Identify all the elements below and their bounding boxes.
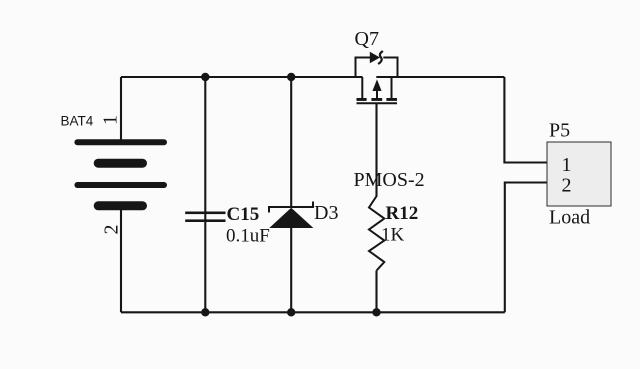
- svg-text:R12: R12: [386, 203, 419, 224]
- Q7 gate bar: [357, 102, 398, 104]
- svg-text:Q7: Q7: [355, 28, 379, 50]
- svg-text:Load: Load: [549, 207, 590, 229]
- resistor R12: [369, 196, 384, 271]
- svg-text:1: 1: [100, 115, 122, 125]
- Q7 bulk arrow: [372, 79, 381, 91]
- svg-text:0.1uF: 0.1uF: [226, 226, 270, 247]
- junction dot: top rail / C15: [201, 73, 209, 81]
- wire: P5 pin 2 return: [505, 183, 547, 313]
- wire: Q7 gate lead to R12: [375, 104, 377, 197]
- svg-text:P5: P5: [549, 120, 570, 142]
- svg-text:D3: D3: [314, 202, 338, 224]
- wire: battery pin 2 drop: [120, 206, 122, 312]
- connector P5 box: [547, 142, 611, 206]
- svg-text:2: 2: [562, 175, 572, 197]
- svg-text:1: 1: [562, 154, 572, 176]
- wire: diode D3 bottom lead: [290, 228, 292, 312]
- svg-text:1K: 1K: [381, 225, 405, 246]
- wire: capacitor C15 vertical: [204, 77, 206, 312]
- wire: P5 pin 1 feed: [504, 77, 547, 163]
- Q7 body diode cathode wire: [383, 58, 397, 78]
- Q7 body diode triangle: [370, 52, 380, 64]
- Q7 bulk stem: [376, 90, 378, 99]
- battery BAT4: [74, 139, 167, 210]
- svg-text:PMOS-2: PMOS-2: [354, 169, 425, 191]
- Q7 body diode curved cathode: [378, 51, 383, 64]
- Q7 drain contact bar: [386, 98, 397, 101]
- Q7 source contact bar: [357, 98, 367, 101]
- junction dot: bottom rail / D3: [287, 308, 295, 316]
- zener diode D3: [269, 202, 313, 229]
- wire: bottom rail: [121, 311, 505, 313]
- wire: diode D3 top lead: [290, 77, 292, 207]
- junction dot: bottom rail / R12: [372, 308, 380, 316]
- wire: top rail right (Q7 to P5 corner): [376, 76, 504, 78]
- Q7 drain vertical: [391, 77, 393, 99]
- junction dot: top rail / D3: [287, 73, 295, 81]
- svg-text:C15: C15: [227, 204, 260, 225]
- junction dot: bottom rail / C15: [201, 308, 209, 316]
- capacitor C15: [185, 212, 225, 223]
- Q7 source vertical: [361, 77, 363, 99]
- Q7 bulk contact bar: [371, 98, 382, 101]
- transistor Q2 body: PMOS Q7: [356, 51, 398, 103]
- wire: battery pin 1 drop: [120, 77, 122, 142]
- svg-text:BAT4: BAT4: [61, 113, 94, 128]
- wire: top rail left (battery to Q7 source): [121, 76, 363, 78]
- svg-text:2: 2: [100, 225, 122, 235]
- wire: R12 bottom lead: [375, 271, 377, 313]
- Q7 body diode loop anode wire: [356, 58, 371, 78]
